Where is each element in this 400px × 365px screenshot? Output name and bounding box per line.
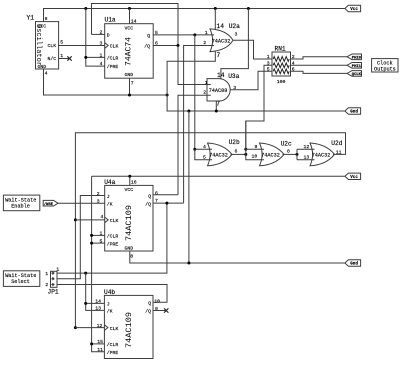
svg-text:GND: GND xyxy=(125,72,134,78)
no-connect X on oscillator pin 1 xyxy=(67,56,71,60)
svg-text:VCC: VCC xyxy=(125,187,134,193)
node junction U4a /CLR tap xyxy=(90,234,93,237)
or-gate U2a 74AC32 xyxy=(203,23,240,59)
power flag Gnd lower right xyxy=(345,260,361,267)
svg-text:Outputs: Outputs xyxy=(374,66,396,72)
svg-text:/PRE: /PRE xyxy=(107,241,119,247)
svg-text:U3a: U3a xyxy=(228,73,239,80)
svg-text:12: 12 xyxy=(97,323,103,329)
flip-flop U4b 74AC109 xyxy=(95,289,160,359)
svg-text:1: 1 xyxy=(45,271,48,277)
wire U2d input jog xyxy=(297,149,315,160)
svg-text:74AC32: 74AC32 xyxy=(261,152,280,158)
svg-text:Vcc: Vcc xyxy=(350,8,358,12)
svg-text:13: 13 xyxy=(304,155,310,161)
node Vcc rail junction at U1a pin 14 xyxy=(128,7,131,10)
wire RN1 pin 4 to PHI1 flag xyxy=(291,64,348,66)
svg-text:2: 2 xyxy=(100,29,103,35)
wire /WSE to U4a /K xyxy=(58,202,105,204)
svg-text:14: 14 xyxy=(95,299,101,305)
svg-text:CLK: CLK xyxy=(110,218,119,224)
svg-text:2: 2 xyxy=(203,90,206,96)
svg-text:3: 3 xyxy=(235,32,238,38)
svg-text:J: J xyxy=(107,302,110,308)
svg-text:3: 3 xyxy=(100,41,103,47)
node junction U1a /CLR tap xyxy=(84,56,87,59)
svg-text:1: 1 xyxy=(56,266,59,272)
node junction GND drop on Gnd rail xyxy=(187,110,190,113)
wire oscillator CLK to U1a CLK xyxy=(59,45,105,47)
svg-text:11: 11 xyxy=(97,347,103,353)
svg-text:1: 1 xyxy=(205,30,208,36)
svg-text:10: 10 xyxy=(252,154,258,160)
wire delayed clock line from U2d to flip-flop clocks xyxy=(75,133,345,328)
oscillator Y1 xyxy=(27,15,64,77)
svg-text:6: 6 xyxy=(235,148,238,154)
node junction U2d feed xyxy=(296,153,299,156)
svg-text:5: 5 xyxy=(60,39,63,45)
svg-text:D: D xyxy=(107,32,110,38)
wire U1a D feedback from /Q (top loop) xyxy=(92,4,179,46)
wire U2b output to U2c feed node xyxy=(231,153,246,155)
svg-text:PHI0: PHI0 xyxy=(352,56,362,60)
svg-text:15: 15 xyxy=(97,339,103,345)
node junction U1a GND on ground run xyxy=(128,94,131,97)
and-gate U3a 74AC08 xyxy=(203,72,239,108)
wire ground run from oscillator and U1a xyxy=(44,69,168,95)
wire U4a pin 16 VCC stub xyxy=(129,176,131,185)
wire Vcc mid rail to flag xyxy=(92,175,345,177)
svg-text:74AC74: 74AC74 xyxy=(125,37,134,66)
wire Gnd rail upper xyxy=(167,95,345,111)
svg-text:14: 14 xyxy=(217,23,225,30)
svg-text:Oscillator: Oscillator xyxy=(34,24,42,66)
svg-text:/Q: /Q xyxy=(145,201,151,207)
svg-text:Q: Q xyxy=(147,33,150,39)
or-gate U2b 74AC32 xyxy=(203,139,240,166)
svg-text:2: 2 xyxy=(203,40,206,46)
svg-text:6: 6 xyxy=(155,191,158,197)
svg-text:/CLR: /CLR xyxy=(107,342,119,348)
svg-text:1: 1 xyxy=(100,231,103,237)
svg-text:/CLR: /CLR xyxy=(107,55,119,61)
svg-text:/K: /K xyxy=(107,309,113,315)
svg-text:U2c: U2c xyxy=(281,140,292,147)
power flag Vcc middle right xyxy=(345,173,361,180)
svg-text:12: 12 xyxy=(304,144,310,150)
svg-text:74AC32: 74AC32 xyxy=(212,38,231,44)
wire U2c output to U2d feed node xyxy=(283,153,298,155)
node Vcc rail junction at U3a pin 14 xyxy=(247,7,250,10)
node junction U2c feed at U2b output xyxy=(244,153,247,156)
node Vcc rail junction at U1a /CLR riser xyxy=(84,7,87,10)
or-gate U2d 74AC32 xyxy=(304,140,343,166)
wire U4a /Q up to U2a pin 2 xyxy=(184,46,214,204)
note box Clock Outputs xyxy=(372,59,398,73)
svg-text:U4a: U4a xyxy=(104,179,115,186)
node junction U4a CLK tap xyxy=(74,218,77,221)
svg-text:Gnd: Gnd xyxy=(350,110,358,115)
wire U4b Q to JP1 pin 3 row xyxy=(57,285,167,303)
node junction U2c feed top xyxy=(244,148,247,151)
svg-text:CLK: CLK xyxy=(110,326,119,332)
svg-text:9: 9 xyxy=(255,144,258,150)
svg-text:7: 7 xyxy=(216,101,220,108)
svg-text:6: 6 xyxy=(155,41,158,47)
svg-text:7: 7 xyxy=(131,80,134,86)
node junction Q / U2b feed xyxy=(193,33,196,36)
svg-text:4: 4 xyxy=(45,71,48,77)
wire U4a Q output stub xyxy=(153,194,178,196)
svg-text:/WSE: /WSE xyxy=(44,202,54,207)
svg-text:/PRE: /PRE xyxy=(107,64,119,70)
node junction U4a /Q branch xyxy=(165,202,168,205)
wire RN1 pin 2 to PHI0 flag xyxy=(291,57,348,59)
svg-text:RN1: RN1 xyxy=(275,46,286,53)
node Vcc rail junction at U2a pin 14 xyxy=(214,7,217,10)
signal flag PHI1 xyxy=(347,63,362,69)
wire U4b CLK stub xyxy=(75,327,104,329)
svg-text:VCC: VCC xyxy=(125,26,134,32)
signal flag /WSE xyxy=(43,200,58,206)
svg-text:2: 2 xyxy=(45,282,48,288)
wire U1a /CLR /PRE pull-up riser from Vcc rail xyxy=(86,9,105,67)
svg-text:U4b: U4b xyxy=(104,289,115,296)
svg-text:2: 2 xyxy=(97,191,100,197)
svg-text:10: 10 xyxy=(154,298,160,304)
svg-text:4: 4 xyxy=(203,144,206,150)
node junction U4b /CLR tap xyxy=(90,342,93,345)
wire U3a pin 7 ground stub xyxy=(215,101,217,111)
svg-text:Y1: Y1 xyxy=(27,15,35,22)
power flag Vcc top right xyxy=(345,5,361,12)
svg-text:74AC08: 74AC08 xyxy=(209,88,228,94)
svg-text:14: 14 xyxy=(217,72,225,79)
wire Vcc top rail xyxy=(44,9,345,22)
wire U4a J to JP1 pin 2 xyxy=(57,196,105,279)
svg-text:CLK: CLK xyxy=(48,43,57,49)
wire U1a Q down to U2b inputs xyxy=(194,35,196,149)
wire oscillator N/C stub xyxy=(59,58,69,60)
svg-text:7: 7 xyxy=(155,198,158,204)
svg-text:/PRE: /PRE xyxy=(107,350,119,356)
wire U4b /Q stub xyxy=(153,310,166,312)
signal flag PHI0 xyxy=(347,54,362,60)
wire U2d output to delayed clock line xyxy=(333,153,346,155)
flip-flop U4a 74AC109 xyxy=(97,179,158,259)
wire U4a /Q to JP1 pin 1 row xyxy=(57,203,184,273)
svg-text:8: 8 xyxy=(45,16,48,22)
wire U2c input jog xyxy=(246,121,264,160)
wire U2a pin 7 ground path xyxy=(167,52,215,96)
wire RN1 pin 6 to QCLK flag xyxy=(291,71,348,73)
node junction U4a /PRE tap xyxy=(90,242,93,245)
wire /Q down to U3a pin 1 xyxy=(178,46,211,85)
note box Wait-State Select xyxy=(3,271,39,287)
svg-text:Select: Select xyxy=(11,279,30,285)
svg-text:GND: GND xyxy=(125,245,134,251)
svg-text:3: 3 xyxy=(267,60,270,66)
svg-text:74AC32: 74AC32 xyxy=(312,152,331,158)
svg-text:14: 14 xyxy=(131,18,137,24)
svg-text:U1a: U1a xyxy=(105,17,116,24)
svg-text:Q: Q xyxy=(148,301,151,307)
svg-text:5: 5 xyxy=(203,155,206,161)
wire Vcc riser down to /CLR /PRE of U4a and U4b xyxy=(92,176,105,351)
svg-text:Vcc: Vcc xyxy=(350,176,358,180)
no-connect X on U4b /Q xyxy=(164,308,168,312)
signal flag QCLK xyxy=(347,71,362,77)
svg-text:74AC109: 74AC109 xyxy=(125,312,134,348)
svg-text:74AC109: 74AC109 xyxy=(125,205,134,241)
or-gate U2c 74AC32 xyxy=(252,140,293,165)
wire U4a /Q down to U4b J and /K xyxy=(86,273,105,310)
wire U4a Q up to U3a pin 2 xyxy=(178,95,211,195)
svg-text:N/C: N/C xyxy=(48,56,57,62)
node junction U3a pin 7 on Gnd rail xyxy=(215,110,218,113)
svg-text:JP1: JP1 xyxy=(48,289,59,296)
wire U1a Q to U2a pin 1 xyxy=(153,34,214,36)
node junction U4b CLK corner xyxy=(74,326,77,329)
svg-text:J: J xyxy=(107,194,110,200)
resistor network RN1 xyxy=(267,46,295,85)
svg-text:1: 1 xyxy=(100,52,103,58)
svg-text:U2b: U2b xyxy=(229,139,240,146)
svg-text:5: 5 xyxy=(100,238,103,244)
svg-text:4: 4 xyxy=(100,214,103,220)
svg-text:8: 8 xyxy=(287,148,290,154)
note box Wait-State Enable xyxy=(3,195,39,211)
svg-text:/Q: /Q xyxy=(144,44,150,50)
svg-text:1: 1 xyxy=(267,54,270,60)
svg-text:Gnd: Gnd xyxy=(350,262,358,267)
node junction /Q feedback xyxy=(177,44,180,47)
svg-text:1: 1 xyxy=(205,80,208,86)
wire U2a output to RN1 pin 1 xyxy=(233,40,272,59)
svg-text:/K: /K xyxy=(107,202,113,208)
svg-text:13: 13 xyxy=(95,306,101,312)
svg-text:QCLK: QCLK xyxy=(352,73,362,77)
svg-text:16: 16 xyxy=(131,180,137,186)
svg-text:5: 5 xyxy=(267,66,270,72)
node junction U4b J tap xyxy=(84,302,87,305)
wire U3a output to RN1 pin 5 xyxy=(231,71,273,90)
node junction U4a pin 16 on Vcc mid rail xyxy=(128,175,131,178)
svg-text:U2a: U2a xyxy=(229,23,240,30)
svg-text:100: 100 xyxy=(277,79,286,85)
wire U1a /Q to feedback riser xyxy=(153,45,178,47)
wire U4a GND to lower Gnd rail xyxy=(130,251,345,263)
svg-text:PHI1: PHI1 xyxy=(352,65,362,69)
wire U2a pin 14 VCC stub xyxy=(214,9,216,30)
jumper header JP1 xyxy=(45,266,59,295)
node junction at U2b pin 4 row xyxy=(193,148,196,151)
power flag Gnd upper right xyxy=(345,108,361,115)
wire U2b input jog xyxy=(195,149,212,160)
wire U1a pin 14 VCC stub xyxy=(129,9,131,24)
svg-text:/CLR: /CLR xyxy=(107,234,119,240)
svg-text:8: 8 xyxy=(130,253,133,259)
svg-text:Q: Q xyxy=(148,193,151,199)
wire GND drop to lower Gnd rail xyxy=(188,111,190,263)
svg-text:/Q: /Q xyxy=(145,309,151,315)
svg-text:Enable: Enable xyxy=(11,204,30,210)
node junction U4b J/K feed on JP1 pin1 row xyxy=(84,272,87,275)
svg-text:U2d: U2d xyxy=(331,140,342,147)
svg-text:5: 5 xyxy=(155,30,158,36)
node junction ground run to Gnd rail xyxy=(166,94,169,97)
node junction GND drop meets lower Gnd rail xyxy=(187,262,190,265)
wire U3a pin 14 VCC path xyxy=(221,9,249,79)
wire PHI1 net riser from RN1 pin 3 down to U2c feed xyxy=(246,65,272,149)
svg-text:7: 7 xyxy=(217,52,221,59)
wire U4a CLK stub xyxy=(75,219,104,221)
flip-flop U1a 74AC74 xyxy=(100,17,159,87)
svg-text:74AC32: 74AC32 xyxy=(209,152,228,158)
svg-text:CLK: CLK xyxy=(110,44,119,50)
svg-text:4: 4 xyxy=(100,61,103,67)
wire U1a D input stub xyxy=(92,33,105,35)
svg-text:3: 3 xyxy=(97,199,100,205)
